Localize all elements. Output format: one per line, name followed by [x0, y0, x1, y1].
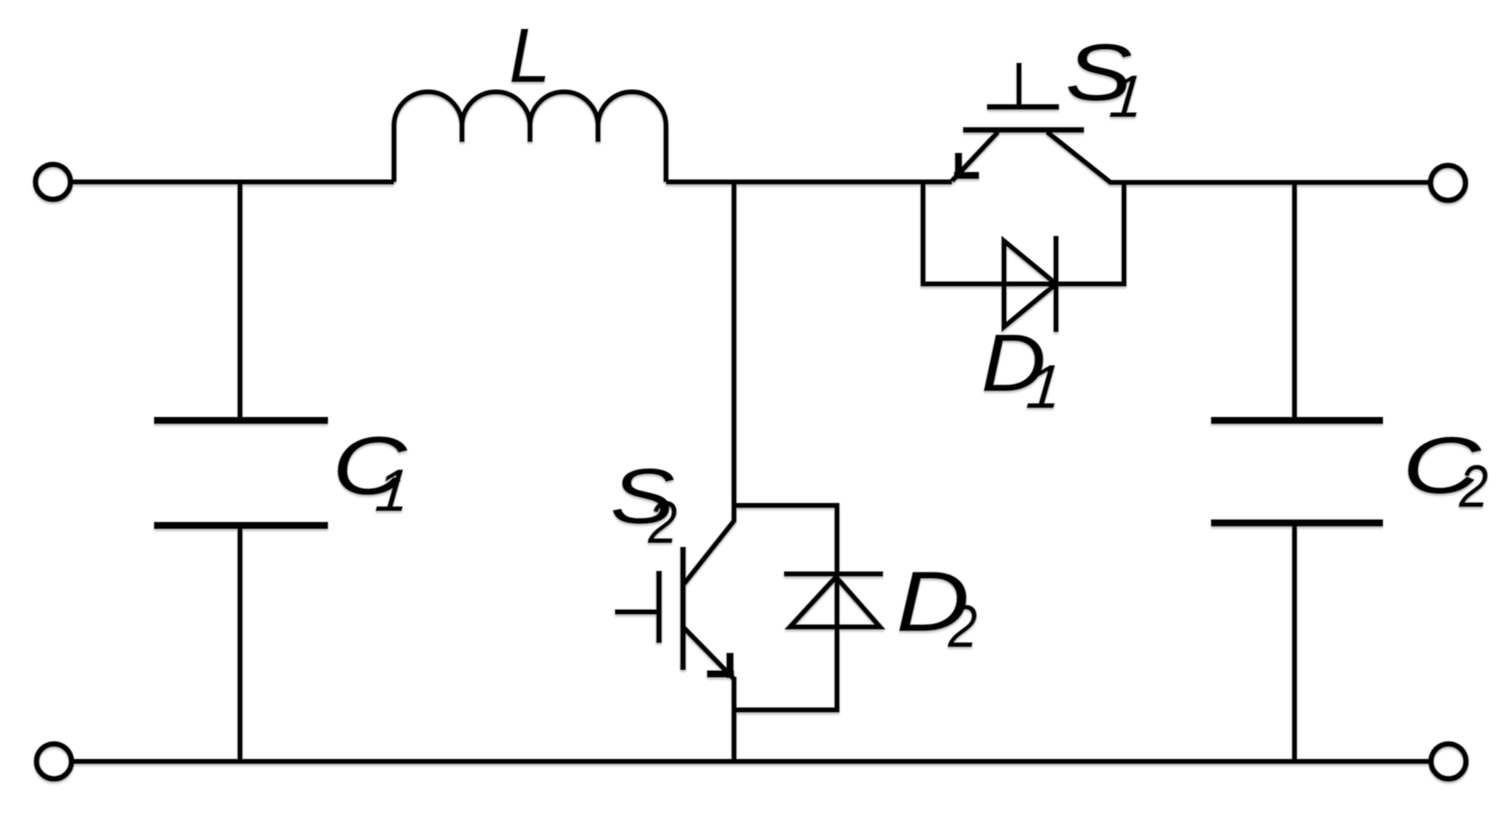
svg-text:1: 1	[1024, 353, 1065, 422]
svg-text:L: L	[509, 13, 551, 99]
diode D1	[1004, 236, 1056, 332]
terminal bottom-right	[1431, 744, 1466, 779]
svg-text:2: 2	[947, 593, 977, 660]
wire top rail middle (inductor to switch node)	[666, 180, 952, 185]
svg-text:2: 2	[647, 489, 677, 556]
capacitor C2	[1211, 183, 1383, 762]
svg-text:1: 1	[1107, 63, 1146, 130]
label L	[509, 13, 551, 99]
svg-text:2: 2	[1458, 453, 1488, 520]
label C2	[1402, 421, 1488, 520]
label D2	[896, 554, 977, 660]
wire switch node to S2 collector	[732, 182, 737, 522]
wire D1 loop (antiparallel path around S1)	[923, 182, 1124, 284]
terminal bottom-left	[37, 744, 72, 779]
inductor L	[394, 92, 666, 182]
label S1	[1065, 28, 1146, 130]
wire S2 emitter to bottom rail	[732, 677, 737, 762]
transistor S2 (IGBT, vertical)	[615, 521, 734, 679]
label C1	[332, 419, 412, 524]
wire top rail right (S1 to output)	[1110, 180, 1428, 185]
label D1	[981, 318, 1064, 422]
wire D2 loop (antiparallel path around S2)	[734, 506, 837, 711]
terminal top-right	[1431, 166, 1466, 201]
label S2	[610, 452, 677, 555]
svg-text:1: 1	[373, 457, 412, 524]
transistor S1 (IGBT, horizontal)	[952, 63, 1111, 183]
terminal top-left	[36, 165, 71, 200]
wire top rail left (input to inductor)	[71, 180, 395, 185]
wire bottom rail	[71, 759, 1429, 764]
diode D2	[784, 574, 883, 627]
capacitor C1	[154, 182, 328, 762]
